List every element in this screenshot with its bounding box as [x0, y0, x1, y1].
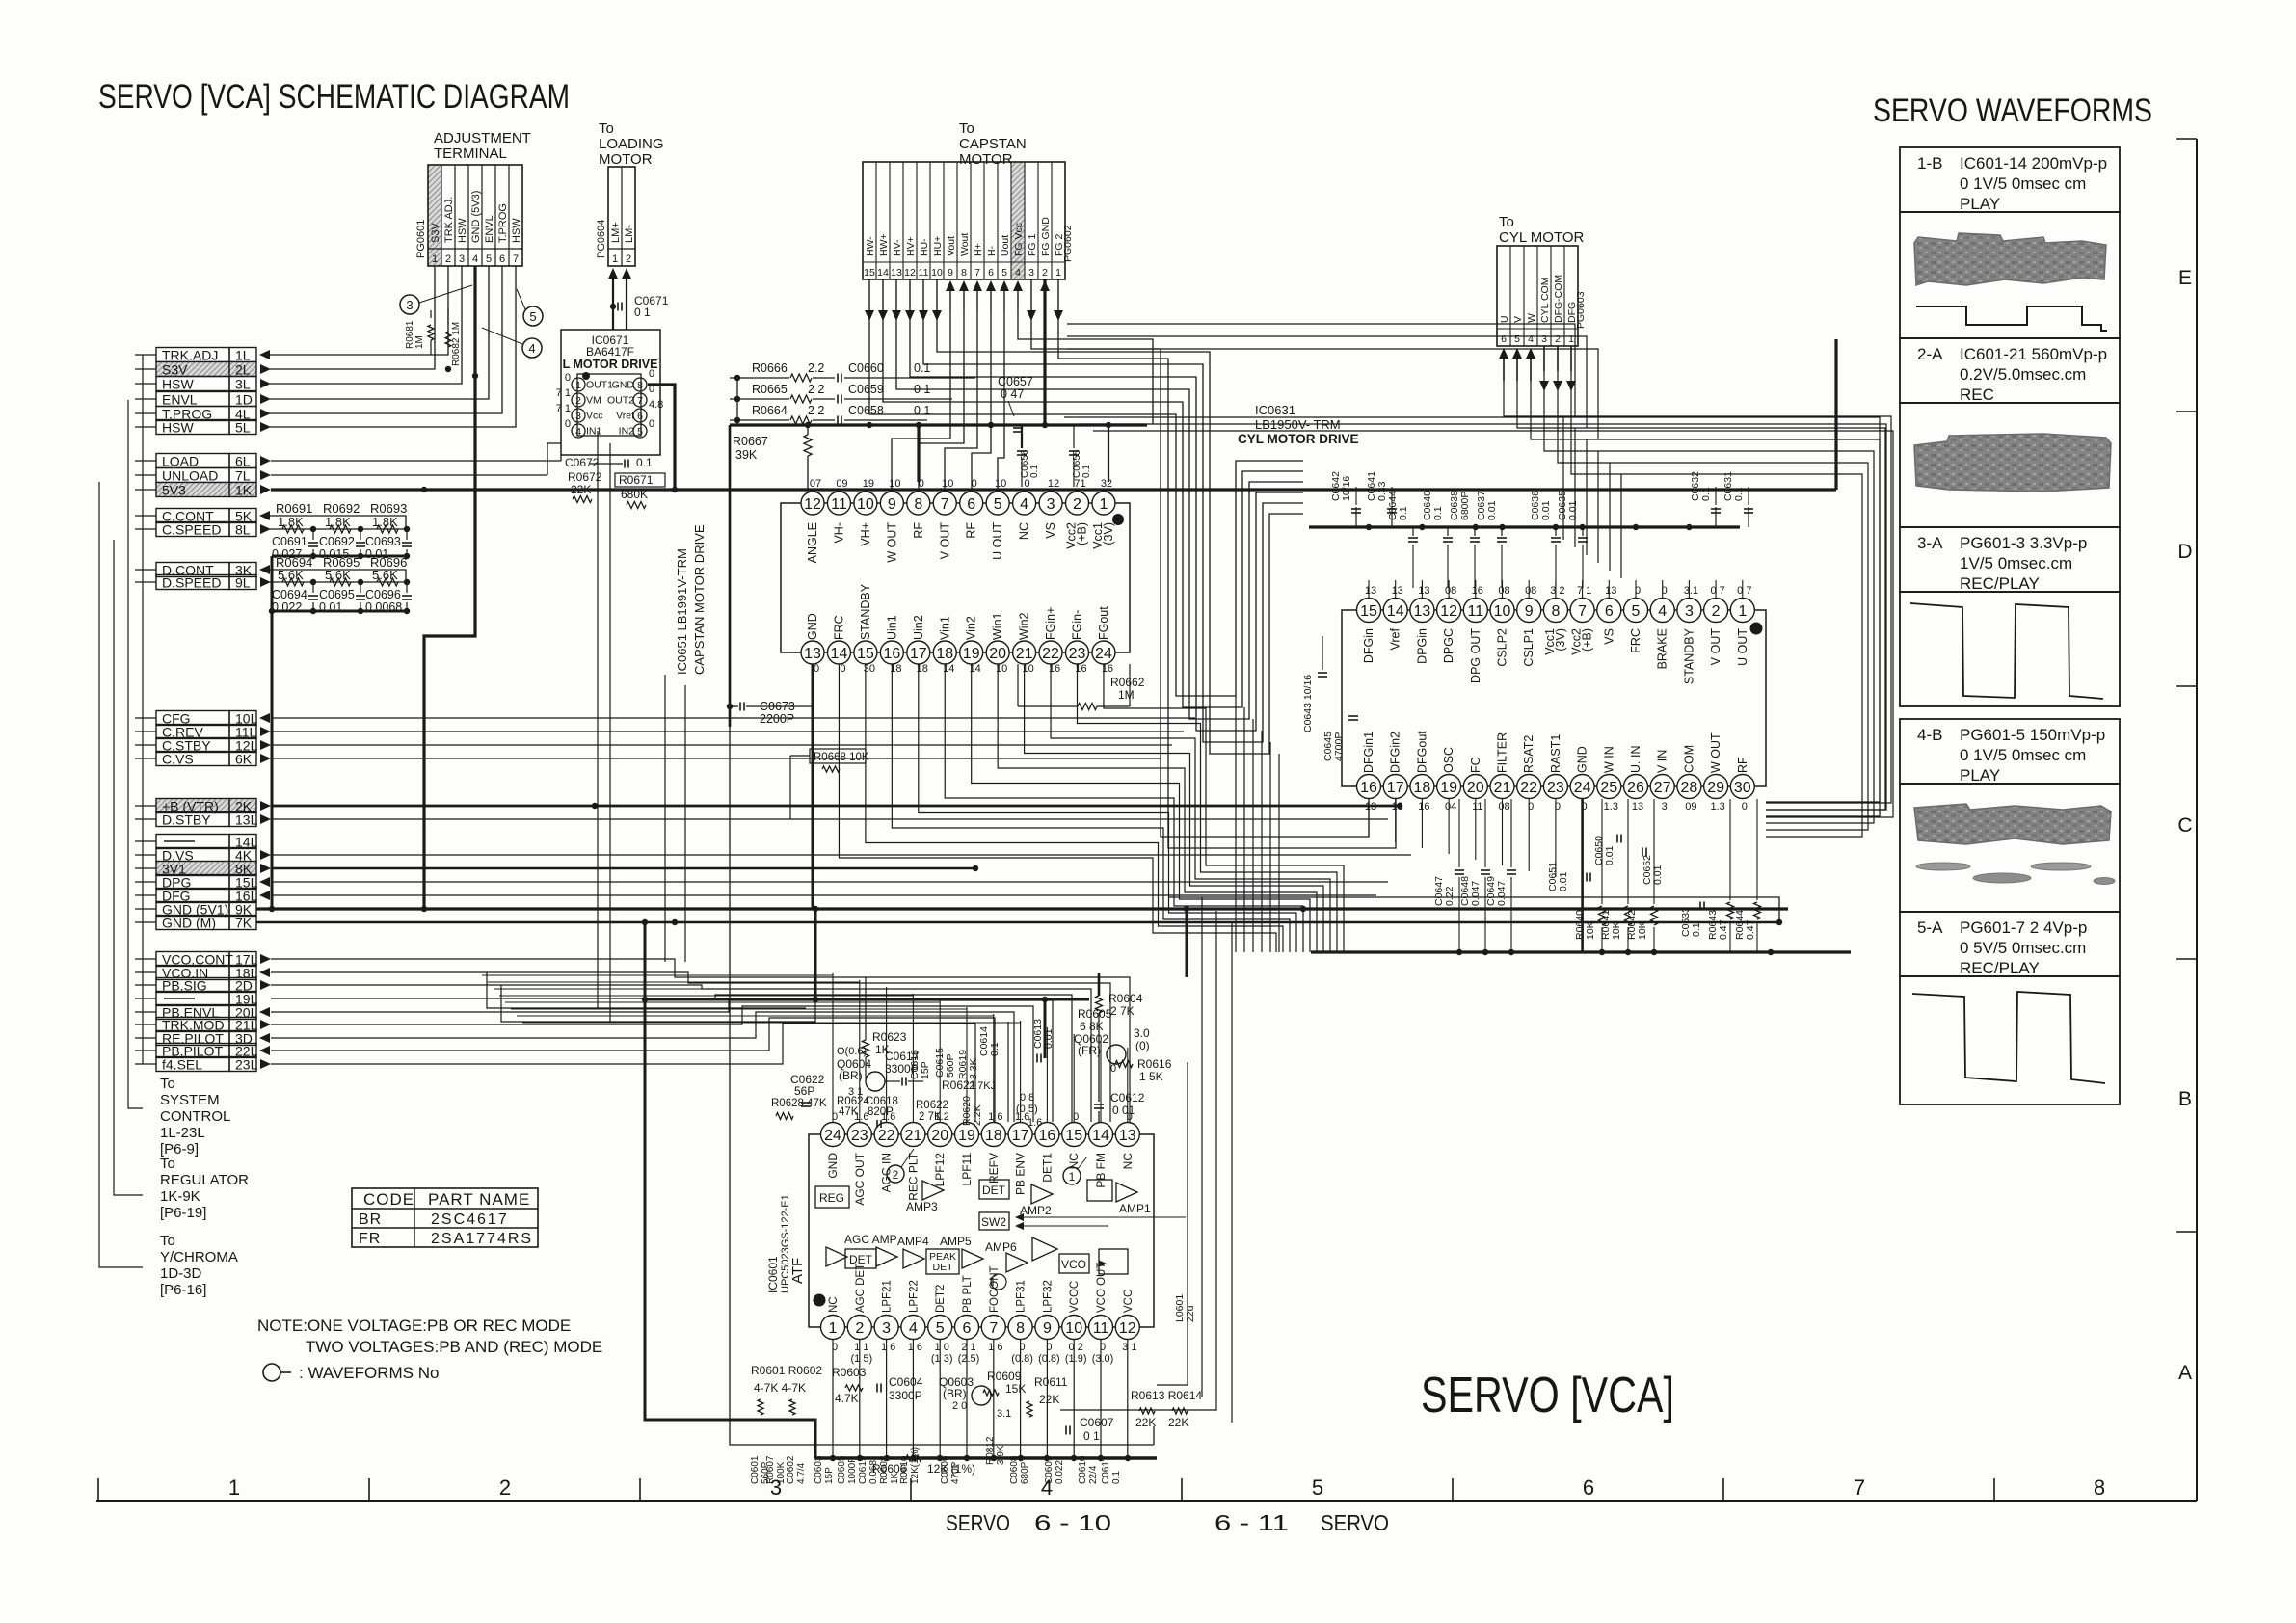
- resistor R0668 10K: [790, 749, 869, 819]
- wire IC0631 wrap: [1243, 707, 1245, 952]
- svg-text:CODE: CODE: [363, 1190, 414, 1209]
- wire ATF upper feed 2: [501, 909, 815, 1022]
- svg-text:3: 3: [459, 253, 465, 265]
- svg-text:2: 2: [1073, 496, 1081, 513]
- svg-text:0.022: 0.022: [1055, 1460, 1065, 1484]
- svg-text:R0605: R0605: [1078, 1007, 1112, 1021]
- wire VCO group row: [271, 995, 1072, 1122]
- label To CYL MOTOR: [1499, 214, 1585, 246]
- terminal TRK.ADJ 1L: [135, 348, 270, 363]
- terminal VCO.IN 18L: [135, 966, 270, 981]
- svg-text:R0691: R0691: [276, 501, 312, 516]
- svg-text:0.1: 0.1: [636, 456, 653, 469]
- resistor R0623 1K: [863, 977, 907, 1079]
- svg-text:04: 04: [1445, 801, 1456, 812]
- terminal C.REV 11L: [135, 725, 271, 740]
- svg-text:1: 1: [1099, 496, 1108, 513]
- wire CFG row: [271, 717, 1195, 719]
- svg-text:PG0604: PG0604: [596, 220, 607, 258]
- svg-text:0: 0: [919, 478, 924, 490]
- svg-text:21: 21: [905, 1128, 922, 1144]
- wire PG0602 pin lead: [892, 279, 901, 321]
- svg-text:13: 13: [1119, 1128, 1136, 1144]
- svg-text:AMP3: AMP3: [906, 1200, 938, 1213]
- svg-text:3: 3: [882, 1320, 891, 1337]
- capacitor C0602 4.7/4: [786, 1455, 807, 1484]
- terminal PB.ENVL 20L: [135, 1005, 270, 1021]
- svg-text:S3V: S3V: [430, 223, 441, 243]
- wire IC0651 pin route: [1051, 664, 1330, 952]
- svg-text:LPF32: LPF32: [1042, 1280, 1054, 1313]
- svg-text:8L: 8L: [235, 522, 251, 538]
- svg-text:0 2: 0 2: [1069, 1342, 1083, 1353]
- svg-text:1: 1: [575, 380, 581, 391]
- svg-text:IN2: IN2: [619, 426, 635, 438]
- svg-text:STANDBY: STANDBY: [859, 583, 872, 640]
- svg-text:R0682 1M: R0682 1M: [451, 322, 462, 366]
- capacitor C0645 4700P: [1322, 716, 1358, 761]
- svg-text:B: B: [2178, 1088, 2192, 1110]
- svg-text:29: 29: [1707, 780, 1724, 796]
- svg-text:FRC: FRC: [1629, 628, 1642, 653]
- svg-text:16: 16: [1360, 780, 1377, 796]
- svg-text:R0664: R0664: [752, 404, 788, 417]
- waveform panel 5-A scope trace: [1900, 976, 2120, 1104]
- waveform panel 2-A scope trace: [1900, 403, 2120, 527]
- svg-text:AGC OUT: AGC OUT: [853, 1152, 867, 1205]
- svg-text:LM-: LM-: [624, 225, 635, 243]
- wire D.SPEED row: [270, 581, 406, 583]
- svg-text:3: 3: [1028, 267, 1034, 279]
- wire left rail 4: [142, 355, 144, 1064]
- waveform panel 3-A header: [1900, 527, 2120, 593]
- svg-text:10: 10: [1494, 603, 1511, 620]
- wire capstan sense: [998, 310, 1004, 490]
- wire 5V3 bold row: [271, 339, 1836, 492]
- capacitor C0644 0.1: [1387, 491, 1418, 588]
- resistor R0643 0.47: [1707, 799, 1734, 952]
- label To CAPSTAN MOTOR: [959, 120, 1027, 168]
- svg-text:Vin1: Vin1: [938, 616, 951, 640]
- svg-text:10: 10: [889, 478, 900, 490]
- svg-text:15K: 15K: [1005, 1382, 1026, 1396]
- capacitor C0647 0.22: [1433, 799, 1464, 952]
- svg-text:DET: DET: [849, 1253, 873, 1266]
- svg-text:07: 07: [810, 478, 821, 490]
- svg-text:(0.8): (0.8): [1011, 1353, 1033, 1365]
- wire IC0631 wrap: [1235, 696, 1237, 952]
- svg-text:C0657: C0657: [998, 375, 1033, 388]
- svg-text:2 2: 2 2: [808, 404, 824, 417]
- wire PG0601 to terminal row: [270, 266, 448, 355]
- capacitor C0691 0.027: [272, 529, 318, 561]
- svg-text:0.01: 0.01: [1558, 871, 1569, 891]
- svg-text:IC0601: IC0601: [766, 1256, 780, 1293]
- capacitor C0638 6800P: [1449, 491, 1480, 588]
- svg-text:BRAKE: BRAKE: [1656, 628, 1669, 669]
- svg-text:0: 0: [1110, 1063, 1116, 1075]
- wire LOAD row: [271, 455, 561, 461]
- wire IC0651 pin route: [839, 664, 1276, 952]
- svg-text:3.0: 3.0: [1134, 1026, 1150, 1040]
- svg-text:0 1: 0 1: [634, 306, 651, 319]
- connector PG0601: [415, 165, 522, 266]
- wire 3V1 row: [271, 865, 978, 871]
- wire PG0602 pin lead: [905, 279, 915, 321]
- svg-text:47K: 47K: [839, 1106, 859, 1118]
- svg-text:AMP2: AMP2: [1020, 1204, 1052, 1217]
- svg-text:3 3K: 3 3K: [968, 1058, 979, 1079]
- svg-text:4: 4: [1015, 267, 1021, 279]
- svg-text:2: 2: [855, 1320, 864, 1337]
- capacitor R0608 1K: [879, 1455, 900, 1484]
- wire capstan sense: [919, 310, 964, 490]
- wire capstan motor phase: [910, 310, 1303, 731]
- wire IC0651 pin route: [892, 664, 1290, 952]
- svg-text:27: 27: [1654, 780, 1671, 796]
- svg-text:FGout: FGout: [1097, 606, 1110, 640]
- svg-text:32: 32: [1101, 478, 1112, 490]
- svg-text:7: 7: [989, 1320, 998, 1337]
- inductor L0601 22u: [1174, 1294, 1196, 1322]
- legend waveforms no: [263, 1364, 439, 1382]
- svg-text:1K: 1K: [235, 483, 253, 498]
- terminal CFG 10L: [135, 711, 270, 727]
- capacitor C0635 0.01: [1557, 491, 1588, 588]
- svg-text:0 1V/5 0msec cm: 0 1V/5 0msec cm: [1960, 174, 2086, 193]
- svg-text:C0696: C0696: [365, 588, 401, 601]
- svg-text:1M: 1M: [1118, 688, 1135, 702]
- svg-text:R0667: R0667: [733, 435, 768, 448]
- svg-text:(BR): (BR): [839, 1069, 863, 1082]
- block REG: [815, 1186, 849, 1208]
- capacitor C0641 0.33: [1366, 471, 1397, 527]
- note To Y/CHROMA: [160, 1233, 238, 1298]
- op-amp output buffer: [1032, 1237, 1057, 1261]
- svg-text:0.1: 0.1: [1081, 465, 1092, 478]
- capacitor C0648 0.047: [1459, 799, 1490, 952]
- wire PG0602 pin lead: [878, 279, 888, 321]
- svg-text:(3.0): (3.0): [1092, 1353, 1114, 1365]
- svg-text:R0622: R0622: [916, 1100, 948, 1111]
- svg-text:DPGC: DPGC: [1442, 628, 1455, 663]
- svg-text:22K: 22K: [1135, 1416, 1156, 1429]
- svg-text:5V3: 5V3: [162, 483, 186, 498]
- svg-text:20: 20: [1467, 780, 1484, 796]
- wire IC0631 pin drops: [1369, 799, 1583, 952]
- svg-text:(1.9): (1.9): [1065, 1353, 1087, 1365]
- svg-text:CYL COM: CYL COM: [1539, 278, 1551, 323]
- capacitor C0636 0.01: [1530, 491, 1561, 588]
- svg-text:GND: GND: [612, 380, 635, 391]
- wire capstan sense: [945, 310, 977, 490]
- svg-text:11: 11: [1467, 603, 1483, 620]
- svg-text:2L: 2L: [235, 362, 251, 378]
- resistor R0644 0.47: [1734, 799, 1761, 952]
- block PEAK DET: [926, 1249, 959, 1274]
- svg-text:R0604: R0604: [1108, 992, 1143, 1005]
- svg-text:CSLP1: CSLP1: [1522, 628, 1535, 667]
- svg-text:0 1: 0 1: [914, 404, 930, 417]
- svg-text:(3V): (3V): [1102, 522, 1115, 545]
- terminal D.VS 4K: [135, 848, 271, 864]
- svg-text:DET: DET: [933, 1262, 954, 1273]
- wire capstan motor phase: [883, 310, 1303, 707]
- svg-text:Win2: Win2: [1018, 612, 1031, 640]
- svg-text:REC/PLAY: REC/PLAY: [1960, 959, 2040, 977]
- svg-text:25: 25: [1600, 780, 1617, 796]
- svg-text:20: 20: [931, 1128, 948, 1144]
- svg-text:8: 8: [2094, 1476, 2105, 1500]
- svg-text:12: 12: [804, 496, 821, 513]
- title: SERVO [VCA] footer block name: [1421, 1368, 1674, 1423]
- svg-text:2 7K: 2 7K: [919, 1111, 942, 1123]
- capacitor C0618 820P: [866, 1096, 898, 1128]
- wire PG0602 pin lead: [865, 279, 874, 321]
- svg-text:FG 1: FG 1: [1027, 234, 1038, 256]
- resistor R0603 4.7K: [832, 1366, 867, 1405]
- svg-text:1M: 1M: [414, 335, 425, 349]
- resistor R0628 47K: [771, 1098, 827, 1120]
- svg-text:PG0601: PG0601: [415, 220, 427, 258]
- wire PG0602 pin lead: [1013, 280, 1023, 310]
- wire GND(5V3) bold rail: [421, 266, 478, 912]
- IC0601 UPC5023GS-122-E1 ATF label: [766, 1194, 806, 1293]
- svg-text:0.1: 0.1: [1700, 487, 1712, 501]
- svg-text:CYL MOTOR DRIVE: CYL MOTOR DRIVE: [1238, 432, 1359, 446]
- svg-text:C.VS: C.VS: [162, 752, 194, 767]
- svg-text:0 7: 0 7: [1710, 585, 1724, 597]
- svg-text:CYL MOTOR: CYL MOTOR: [1499, 229, 1585, 246]
- svg-text:0.1: 0.1: [1111, 1471, 1122, 1484]
- svg-text:11: 11: [1472, 801, 1482, 812]
- capacitor C0692 0.015: [319, 529, 365, 561]
- capacitor C0633 0.1: [1680, 902, 1704, 938]
- svg-text:3.1: 3.1: [997, 1408, 1011, 1420]
- svg-text:3: 3: [406, 298, 413, 312]
- voltage 0 8 (0 5): [1016, 1092, 1042, 1129]
- svg-text:C0660: C0660: [848, 361, 884, 375]
- waveform panel 1-B scope trace: [1900, 212, 2120, 338]
- terminal S3V 2L: [135, 362, 271, 378]
- svg-text:6800P: 6800P: [1459, 492, 1471, 520]
- svg-text:14: 14: [1092, 1128, 1109, 1144]
- wire IC0631 wrap: [1252, 719, 1254, 952]
- svg-text:RSAT2: RSAT2: [1522, 735, 1535, 773]
- wire cyl motor phase: [1544, 371, 1874, 823]
- svg-text:HW-: HW-: [865, 236, 876, 256]
- svg-text:1 6: 1 6: [988, 1111, 1002, 1123]
- wire PG0603 pin lead: [1553, 346, 1562, 391]
- svg-text:VCOC: VCOC: [1069, 1281, 1081, 1313]
- svg-text:GND (M): GND (M): [162, 916, 216, 931]
- svg-text:[P6-19]: [P6-19]: [160, 1205, 206, 1221]
- transistor Q0604 BR: [837, 1046, 885, 1098]
- resistor R0619 3.3K: [957, 1050, 979, 1079]
- wire cyl motor phase: [1504, 381, 1891, 803]
- svg-text:R0606: R0606: [872, 1462, 907, 1476]
- resistor R0605 6.8K: [1078, 1007, 1112, 1033]
- capacitor C0619 0.068: [858, 1455, 879, 1484]
- terminal DFG 16L: [135, 889, 270, 904]
- capacitor C0652 0.01: [1642, 848, 1664, 886]
- svg-text:DFGin2: DFGin2: [1389, 732, 1402, 773]
- svg-text:R0616: R0616: [1137, 1057, 1172, 1071]
- wire PG0601 to terminal row: [270, 266, 516, 427]
- svg-text:3L: 3L: [235, 377, 251, 392]
- svg-text:19: 19: [958, 1128, 975, 1144]
- note voltages: [257, 1317, 602, 1356]
- waveform mark 4: [482, 328, 542, 358]
- svg-text:14: 14: [1387, 603, 1404, 620]
- terminal D.SPEED 9L: [135, 575, 271, 591]
- svg-text:14: 14: [831, 646, 848, 662]
- wire PG0601 to terminal row: [270, 266, 502, 413]
- svg-text:6L: 6L: [235, 454, 251, 469]
- svg-text:To: To: [160, 1076, 175, 1092]
- wire ATF bottom bus bold: [815, 1340, 1157, 1461]
- wire cyl bundle vertical: [1597, 451, 1599, 563]
- wire bold ATF feed: [642, 919, 1089, 1458]
- svg-text:RF: RF: [912, 522, 925, 539]
- wire capstan to cyl run: [1067, 349, 1598, 439]
- svg-text:IC601-14 200mVp-p: IC601-14 200mVp-p: [1960, 154, 2107, 173]
- svg-text:23: 23: [851, 1128, 868, 1144]
- resistor R0662 1M: [1018, 664, 1145, 710]
- svg-text:3: 3: [1541, 333, 1547, 345]
- svg-text:DET: DET: [982, 1184, 1006, 1197]
- svg-text:0: 0: [1662, 585, 1668, 597]
- svg-text:0.47: 0.47: [1745, 919, 1756, 940]
- svg-text:U. IN: U. IN: [1629, 746, 1642, 773]
- svg-text:08: 08: [1445, 585, 1456, 597]
- svg-text:VS: VS: [1044, 522, 1057, 539]
- svg-text:0.1: 0.1: [989, 1042, 1001, 1056]
- svg-text:8: 8: [914, 496, 922, 513]
- capacitor C0637 0.01: [1476, 491, 1507, 588]
- svg-text:22: 22: [1520, 780, 1537, 796]
- svg-text:9: 9: [1043, 1320, 1052, 1337]
- svg-text:13: 13: [1392, 585, 1403, 597]
- svg-text:0: 0: [1742, 801, 1748, 812]
- terminal +B (VTR) 2K: [135, 799, 271, 814]
- svg-text:C0692: C0692: [319, 535, 355, 548]
- svg-text:REC PLT: REC PLT: [906, 1152, 920, 1200]
- transistor Q0603 BR: [939, 1375, 1011, 1420]
- capacitor C0671: [610, 294, 669, 319]
- svg-text:6K: 6K: [235, 752, 253, 767]
- svg-text:1 6: 1 6: [988, 1342, 1002, 1353]
- svg-text:(FR): (FR): [1078, 1044, 1101, 1057]
- svg-text:SERVO [VCA]: SERVO [VCA]: [1421, 1368, 1674, 1423]
- svg-text:6: 6: [1583, 1476, 1594, 1500]
- terminal GND (M) 7K: [135, 916, 256, 931]
- svg-text:6: 6: [967, 496, 975, 513]
- svg-text:2 1: 2 1: [961, 1342, 975, 1353]
- terminal C.VS 6K: [135, 752, 271, 767]
- svg-text:24: 24: [1574, 780, 1591, 796]
- waveform panel 2-A header: [1900, 338, 2120, 404]
- capacitor C0615 560P: [934, 1048, 956, 1078]
- svg-text:(3V): (3V): [1554, 628, 1567, 652]
- svg-text:IC601-21 560mVp-p: IC601-21 560mVp-p: [1960, 345, 2107, 363]
- capacitor C0622 56P: [790, 1073, 825, 1106]
- wire PG0602 pin lead: [986, 280, 996, 310]
- svg-text:7: 7: [974, 267, 980, 279]
- svg-text:08: 08: [1498, 585, 1509, 597]
- svg-text:R0662: R0662: [1110, 676, 1145, 689]
- svg-text:16: 16: [1039, 1128, 1056, 1144]
- svg-text:13: 13: [1392, 801, 1403, 812]
- svg-text:SERVO: SERVO: [1321, 1510, 1389, 1535]
- svg-text:0.2V/5.0msec.cm: 0.2V/5.0msec.cm: [1960, 365, 2086, 384]
- svg-text:820P: 820P: [868, 1106, 894, 1118]
- svg-text:C.SPEED: C.SPEED: [162, 522, 221, 538]
- svg-text:MOTOR: MOTOR: [959, 151, 1013, 168]
- terminal C.SPEED 8L: [135, 522, 271, 538]
- resistor R0606 12K: [872, 1455, 975, 1476]
- resistor R0682 1M: [445, 308, 462, 372]
- svg-text:5: 5: [486, 253, 492, 265]
- capacitor C0601 560P: [750, 1455, 771, 1484]
- border ruler right: [2176, 139, 2197, 1501]
- svg-text:V OUT: V OUT: [938, 522, 951, 560]
- svg-text:D: D: [2177, 541, 2192, 563]
- wire FG 2: [1058, 310, 1396, 848]
- svg-text:6: 6: [963, 1320, 972, 1337]
- svg-text:0: 0: [649, 368, 654, 380]
- svg-text:2.2K: 2.2K: [972, 1104, 983, 1126]
- terminal ENVL 1D: [135, 392, 271, 408]
- svg-text:10: 10: [931, 267, 943, 279]
- resistor R0611 22K: [1027, 1375, 1068, 1417]
- svg-text:15: 15: [1360, 603, 1377, 620]
- wire C.REV row: [271, 731, 1184, 732]
- svg-text:1D: 1D: [235, 392, 253, 408]
- svg-text:22u: 22u: [1185, 1305, 1196, 1322]
- svg-text:23L: 23L: [235, 1057, 258, 1073]
- wire D.STBY row: [271, 818, 1388, 820]
- wire UNLOAD row: [271, 443, 561, 475]
- svg-text:C0695: C0695: [319, 588, 355, 601]
- svg-text:2 0: 2 0: [952, 1400, 967, 1412]
- svg-text:8: 8: [1551, 603, 1560, 620]
- svg-text:4: 4: [909, 1320, 918, 1337]
- svg-text:IN1: IN1: [586, 426, 602, 438]
- svg-text:HV+: HV+: [905, 236, 917, 256]
- svg-text:6: 6: [637, 411, 643, 422]
- svg-text:SW2: SW2: [981, 1215, 1006, 1229]
- svg-text:1: 1: [432, 253, 438, 265]
- svg-text:22/4: 22/4: [1088, 1465, 1099, 1484]
- capacitor C0649 0.047: [1485, 799, 1516, 952]
- waveform mark 5: [517, 289, 543, 326]
- svg-text:SERVO: SERVO: [946, 1510, 1010, 1535]
- terminal HSW 5L: [135, 420, 271, 436]
- resistor R0620 2.2K: [961, 1096, 983, 1126]
- svg-text:V IN: V IN: [1656, 750, 1669, 773]
- svg-text:DFGin1: DFGin1: [1362, 732, 1375, 773]
- svg-text:C0659: C0659: [848, 383, 884, 396]
- svg-text:REC/PLAY: REC/PLAY: [1960, 574, 2040, 593]
- resistor R0613 R0614 22K: [1131, 1389, 1202, 1429]
- wire GND (5V1) bold bus: [256, 906, 1788, 912]
- svg-text:SERVO [VCA] SCHEMATIC DIAGRAM: SERVO [VCA] SCHEMATIC DIAGRAM: [98, 78, 570, 116]
- svg-text:6 - 11: 6 - 11: [1215, 1510, 1289, 1535]
- wire cyl motor phase: [1558, 371, 1868, 830]
- svg-text:R0603: R0603: [832, 1366, 867, 1379]
- svg-text:4: 4: [1528, 333, 1534, 345]
